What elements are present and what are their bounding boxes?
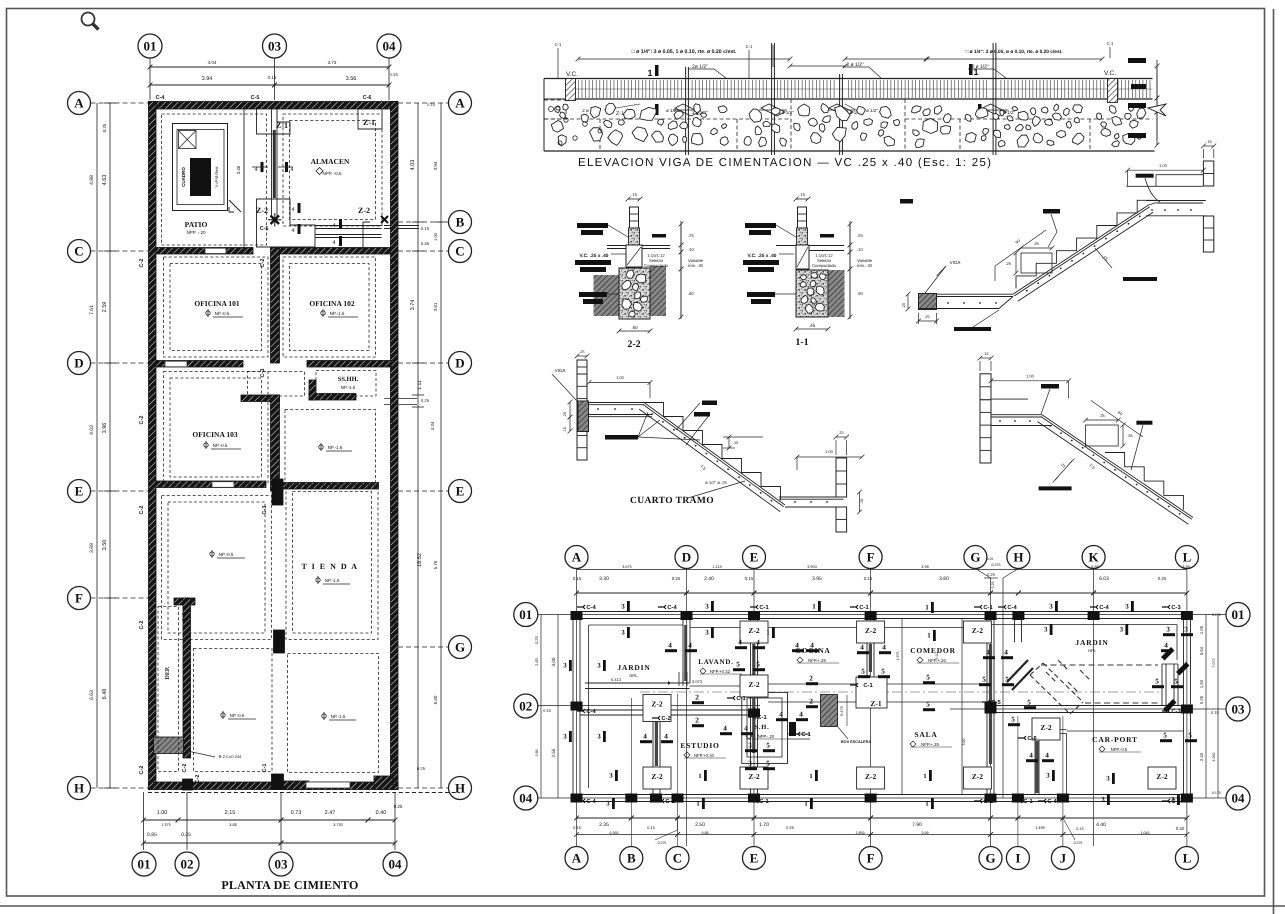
plan left dim col [540, 615, 542, 799]
svg-text:Z-2: Z-2 [748, 626, 760, 635]
svg-text:3.88: 3.88 [229, 823, 236, 827]
svg-text:4: 4 [291, 228, 294, 234]
svg-text:5: 5 [1188, 732, 1192, 740]
grid bubble E plan bottom [743, 847, 766, 870]
svg-text:01: 01 [138, 857, 151, 872]
detail 2-2 floor lines [607, 245, 626, 247]
dowel bar 1 [685, 67, 687, 155]
svg-text:Z-2: Z-2 [651, 700, 663, 709]
grid bubble C plan bottom [666, 847, 689, 870]
stair1 black bar right [1123, 277, 1157, 281]
stair1 diag dim 90 [995, 230, 1046, 266]
stair3 diag dim 60 [1091, 400, 1143, 437]
svg-text:5: 5 [1155, 678, 1159, 686]
svg-text:1-1: 1-1 [795, 337, 808, 348]
stair1 landing top [1126, 185, 1203, 187]
svg-text:0.25: 0.25 [991, 582, 995, 589]
svg-text:G: G [970, 550, 980, 565]
svg-text:2.40: 2.40 [704, 576, 714, 582]
axis line E right [398, 490, 449, 492]
svg-text:1: 1 [766, 629, 770, 637]
stair1 right ladder top [1203, 161, 1213, 186]
zapata box Z-1 F axis [856, 677, 887, 708]
svg-text:3.50: 3.50 [102, 540, 108, 551]
plan inner face mid [690, 627, 987, 629]
svg-text:1.00: 1.00 [825, 449, 834, 454]
svg-text:C-6: C-6 [1027, 735, 1037, 742]
detail 2-2 bottom dim [619, 330, 650, 332]
svg-text:1.065: 1.065 [1212, 753, 1216, 762]
svg-text:C-2: C-2 [139, 259, 145, 268]
room outline oficina103 [164, 372, 269, 484]
dim col left outer [96, 103, 98, 788]
svg-text:VIGA: VIGA [950, 260, 961, 265]
svg-text:03: 03 [268, 39, 282, 54]
svg-text:C-1: C-1 [759, 604, 769, 611]
axis line 01 [149, 58, 151, 100]
plan bottom axis C fork [655, 830, 678, 840]
svg-text:C-2: C-2 [392, 416, 398, 425]
svg-text:3: 3 [563, 662, 567, 670]
svg-text:Compactado: Compactado [812, 263, 836, 268]
grid bubble F plan top [859, 546, 882, 569]
detail 1-1 wall cells [798, 207, 807, 228]
svg-text:5: 5 [766, 760, 770, 768]
grid bubble 03 plan right [1226, 697, 1250, 721]
dim line top inner [150, 84, 275, 86]
svg-text:C-3: C-3 [260, 369, 266, 378]
svg-text:0.15: 0.15 [1211, 710, 1220, 715]
svg-text:NP.-1.5: NP.-1.5 [325, 578, 340, 583]
dowel bar 3 [839, 74, 841, 155]
svg-text:4.03: 4.03 [89, 425, 95, 435]
svg-text:3.94: 3.94 [202, 76, 213, 82]
axis line G right [398, 646, 449, 648]
stair1 black bar top [1136, 174, 1154, 178]
grid bubble E left [68, 480, 91, 503]
stair3 top slab [991, 414, 1042, 416]
column 04-H [374, 776, 393, 790]
patio inner corner lines [363, 222, 370, 252]
zapata Z-2 outline center [257, 199, 316, 247]
svg-text:0.45: 0.45 [421, 241, 430, 246]
svg-text:C-5: C-5 [260, 226, 269, 232]
stair1 bottom leader [973, 310, 999, 327]
svg-text:3: 3 [748, 742, 752, 750]
svg-text:3: 3 [1184, 626, 1188, 634]
svg-text:H: H [455, 781, 465, 796]
svg-text:1.11: 1.11 [417, 380, 423, 390]
svg-text:6.88: 6.88 [1091, 565, 1098, 569]
svg-text:3: 3 [606, 800, 610, 808]
svg-text:7.073: 7.073 [1212, 659, 1216, 668]
label 4 ticks top [261, 162, 264, 172]
svg-text:0.85: 0.85 [147, 832, 157, 838]
svg-text:NPP. -0.6: NPP. -0.6 [323, 171, 342, 176]
svg-text:ESTUDIO: ESTUDIO [680, 741, 719, 750]
svg-text:D: D [74, 356, 83, 371]
svg-text:3.30: 3.30 [599, 576, 609, 582]
svg-text:1.00: 1.00 [616, 375, 625, 380]
beam top line [544, 78, 1153, 80]
svg-text:C: C [74, 244, 83, 259]
svg-text:B: B [627, 851, 636, 866]
svg-text:G: G [985, 851, 995, 866]
svg-text:PATIO: PATIO [185, 220, 208, 229]
svg-text:PLANTA DE CIMIENTO: PLANTA DE CIMIENTO [221, 878, 358, 892]
detail 1-1 bottom dim [796, 328, 828, 330]
svg-text:0.15: 0.15 [573, 576, 582, 581]
svg-text:C-1: C-1 [262, 764, 268, 773]
grid bubble B plan bottom [620, 847, 643, 870]
svg-text:NFP.+.25: NFP.+.25 [808, 658, 826, 663]
beam mid line [576, 88, 1153, 90]
svg-text:L: L [1183, 550, 1192, 565]
axis line F left [91, 597, 149, 599]
wall sshh step [309, 394, 356, 401]
elev dim line 1 [578, 58, 790, 60]
svg-text:LAVAND.: LAVAND. [698, 658, 734, 666]
svg-text:03: 03 [275, 857, 289, 872]
axis line J vertical [1062, 716, 1064, 846]
axis line 03 plan [950, 708, 1226, 710]
stair3 black bar right [1136, 421, 1152, 425]
room outline oficina101 [164, 257, 269, 357]
svg-text:1.113: 1.113 [712, 565, 721, 569]
svg-text:ALMACEN: ALMACEN [311, 157, 350, 166]
svg-text:C-6: C-6 [363, 95, 372, 101]
svg-text:C-1: C-1 [759, 798, 769, 805]
stair2 left ladder upper [577, 360, 587, 374]
svg-text:5: 5 [736, 661, 740, 669]
svg-text:C-2: C-2 [392, 506, 398, 515]
svg-text:NP.-0.5: NP.-0.5 [215, 311, 230, 316]
plan bottom dim line [577, 817, 632, 819]
svg-text:Z-2: Z-2 [972, 626, 984, 635]
grid bubble F plan bottom [859, 847, 882, 870]
grid bubble A plan bottom [565, 847, 588, 870]
stair3 tail lines [1185, 505, 1196, 520]
svg-text:0.25: 0.25 [987, 557, 994, 561]
zapata box Z-2 [643, 767, 671, 789]
svg-text:4.03: 4.03 [410, 160, 416, 171]
svg-text:3 ø 1/2": 3 ø 1/2" [778, 110, 794, 115]
svg-text:5: 5 [982, 676, 986, 684]
svg-text:4: 4 [291, 207, 294, 213]
room outline patio [162, 114, 267, 245]
detail 1-1 dim .15 top [796, 198, 808, 200]
svg-text:0.15: 0.15 [573, 825, 582, 830]
detail 1-1 label bar 1 [745, 223, 776, 228]
stair1 diagonal slab [1013, 205, 1149, 294]
svg-text:4: 4 [643, 733, 647, 741]
svg-text:D: D [455, 356, 464, 371]
plan wall E [750, 619, 752, 795]
svg-text:1: 1 [927, 632, 931, 640]
grid bubble A right [449, 92, 472, 115]
svg-text:4: 4 [738, 639, 742, 647]
stair1 black bar left [900, 199, 913, 204]
column X mark Z-2 right [381, 216, 388, 223]
svg-text:A: A [572, 550, 582, 565]
svg-text:0.375: 0.375 [992, 563, 1001, 567]
svg-text:3: 3 [1049, 603, 1053, 611]
plan wall bottom [571, 794, 1191, 796]
svg-text:1.50: 1.50 [1199, 679, 1204, 688]
svg-text:C-1: C-1 [746, 44, 753, 49]
svg-text:0.25: 0.25 [1158, 576, 1167, 581]
svg-text:V.C. .25 x .40: V.C. .25 x .40 [748, 253, 777, 259]
svg-text:.25: .25 [579, 350, 584, 354]
svg-text:3: 3 [705, 603, 709, 611]
svg-text:0.25: 0.25 [421, 398, 430, 403]
wall dep right [183, 598, 191, 758]
detail 1-1 ground hatch right [829, 270, 845, 317]
svg-text:NFP.-.20: NFP.-.20 [758, 734, 775, 739]
detail 2-2 dim .15 top [628, 198, 640, 200]
svg-text:C-3: C-3 [1171, 708, 1181, 715]
svg-text:2.59: 2.59 [102, 302, 108, 313]
stair2 left ladder [577, 374, 587, 460]
detail 1-1 floor lines [809, 245, 844, 247]
svg-text:5: 5 [926, 701, 930, 709]
svg-text:Z-1: Z-1 [363, 118, 375, 127]
detail 2-2 wall concrete [629, 228, 640, 245]
detail 2-2 ground hatch left [594, 275, 620, 316]
grid bubble E plan top [743, 546, 766, 569]
svg-text:3.96: 3.96 [102, 423, 108, 434]
svg-text:H: H [1013, 550, 1023, 565]
stair3 left ladder [980, 374, 991, 400]
plan wall 03 right [994, 705, 1184, 707]
detail 2-2 cimiento concrete [619, 268, 650, 319]
svg-text:Z-1: Z-1 [870, 699, 882, 708]
axis line H right [398, 787, 449, 789]
svg-text:C-3: C-3 [1171, 604, 1181, 611]
svg-text:NP.-0.6: NP.-0.6 [230, 713, 245, 718]
svg-text:C-2: C-2 [139, 506, 145, 515]
svg-text:C-4: C-4 [586, 798, 596, 805]
plan wall sh box [742, 692, 788, 763]
svg-text:4: 4 [1045, 752, 1049, 760]
svg-text:C-4: C-4 [586, 604, 596, 611]
svg-text:3: 3 [621, 629, 625, 637]
svg-text:T I E N D A: T I E N D A [301, 562, 358, 571]
axis line A vertical [576, 569, 578, 847]
svg-text:3: 3 [1046, 772, 1050, 780]
axis line E vertical [753, 569, 755, 847]
dashed excavation line [544, 118, 790, 120]
wall axis D right [307, 361, 391, 368]
svg-text:0.25: 0.25 [181, 832, 191, 838]
axis line C right [398, 250, 449, 252]
svg-text:0.15: 0.15 [268, 75, 277, 80]
svg-text:7.61: 7.61 [89, 305, 95, 315]
grid bubble D plan top [675, 546, 698, 569]
wall right [391, 102, 399, 790]
plan bottom dim line 2 [577, 834, 678, 836]
room outline almacen upper [283, 114, 382, 226]
stair3 step start lines [1042, 415, 1105, 453]
svg-text:5: 5 [756, 661, 760, 669]
grid bubble 01 plan right [1226, 603, 1250, 627]
svg-text:V.C.: V.C. [566, 71, 578, 78]
svg-text:02: 02 [519, 699, 532, 714]
svg-text:.26: .26 [1127, 433, 1133, 438]
svg-text:COCINA: COCINA [795, 646, 830, 655]
plan top dim tiny row [577, 569, 1187, 571]
grid bubble B right [449, 211, 472, 234]
plan inner face top right [985, 624, 1177, 626]
zapata box Z-2 [1032, 718, 1060, 740]
svg-text:.15: .15 [563, 427, 567, 432]
elev dim line mid [790, 65, 845, 67]
svg-text:04: 04 [389, 857, 403, 872]
grid bubble E right [449, 480, 472, 503]
axis line H left [91, 787, 149, 789]
svg-text:3: 3 [597, 733, 601, 741]
plan wall right [1183, 612, 1185, 802]
plan columns [571, 611, 1193, 803]
plan wall 02 left [580, 709, 756, 711]
svg-text:V.C.: V.C. [1104, 70, 1116, 77]
zapata box Z-2 [740, 675, 768, 697]
stair2 dim .25 top [577, 355, 587, 357]
svg-text:OFICINA 101: OFICINA 101 [194, 299, 239, 308]
plan wall F partial [866, 619, 868, 707]
svg-text:.15: .15 [733, 441, 738, 445]
svg-text:1.00: 1.00 [1026, 374, 1035, 379]
door band D wall [165, 361, 187, 367]
stair2 dim 1.00 right [797, 456, 862, 458]
stair3 diagonal slab [1042, 415, 1193, 518]
svg-text:A: A [572, 851, 582, 866]
axis line 04 [388, 58, 390, 100]
stair3 black bar bottom [1039, 486, 1072, 490]
svg-text:C-1: C-1 [665, 798, 675, 805]
legend box patio [173, 124, 228, 211]
column V.C. left [566, 79, 576, 101]
svg-text:1.05: 1.05 [1199, 625, 1204, 634]
svg-text:3.88: 3.88 [535, 750, 539, 757]
svg-text:1: 1 [647, 68, 652, 78]
svg-text:SALA: SALA [914, 730, 937, 739]
svg-text:3: 3 [597, 662, 601, 670]
svg-text:1: 1 [696, 800, 700, 808]
svg-text:0.15: 0.15 [427, 102, 436, 107]
column 03-H [272, 774, 284, 790]
svg-text:2.35: 2.35 [599, 822, 609, 828]
svg-text:.15: .15 [1206, 139, 1212, 144]
svg-text:4: 4 [1029, 752, 1033, 760]
svg-text:C-4: C-4 [586, 708, 596, 715]
wall axis E left [156, 481, 266, 488]
grid bubble D right [449, 352, 472, 375]
svg-text:4: 4 [254, 167, 257, 173]
dim col right [417, 103, 419, 788]
svg-text:0.15: 0.15 [745, 576, 754, 581]
svg-text:C-1: C-1 [1107, 41, 1114, 46]
stair2 black bars [605, 435, 638, 440]
svg-text:.25: .25 [838, 431, 843, 435]
grid bubble 03 bottom [269, 852, 293, 876]
stair2 dim .15 mid [728, 437, 730, 448]
svg-text:18.52: 18.52 [417, 553, 423, 567]
svg-text:NFP.+.26: NFP.+.26 [928, 658, 946, 663]
stair3 top lines [991, 398, 1028, 400]
detail 1-1 vc box [796, 245, 809, 269]
svg-text:3.98: 3.98 [1182, 565, 1189, 569]
svg-text:2.15: 2.15 [225, 810, 236, 816]
stair2 dim .25 right [836, 436, 847, 438]
svg-text:3.735: 3.735 [333, 823, 343, 827]
svg-text:9.88: 9.88 [702, 831, 709, 835]
room outline oficina102 [283, 257, 376, 357]
svg-text:CAR-PORT: CAR-PORT [1092, 735, 1138, 744]
svg-text:C-4: C-4 [667, 604, 677, 611]
axis line dowel2 [772, 45, 774, 67]
zapata box Z-2 [963, 621, 991, 643]
svg-text:C-2: C-2 [392, 621, 398, 630]
svg-text:C-2: C-2 [139, 621, 145, 630]
svg-text:01: 01 [144, 39, 157, 54]
svg-text:4.88: 4.88 [89, 175, 95, 185]
stair3 black bar top [1041, 384, 1059, 389]
stair2 dim .15 right2 [859, 492, 861, 512]
svg-text:3.98: 3.98 [921, 565, 928, 569]
axis line H fork [1003, 569, 1018, 579]
svg-text:E: E [750, 550, 759, 565]
svg-text:0.15: 0.15 [543, 708, 552, 713]
svg-text:NP.-1.6: NP.-1.6 [328, 445, 343, 450]
axis line D left [91, 362, 149, 364]
svg-text:NP.-1.5: NP.-1.5 [330, 311, 345, 316]
grid bubble J plan bottom [1051, 847, 1074, 870]
axis line C left [91, 250, 149, 252]
svg-text:1.859: 1.859 [856, 831, 865, 835]
svg-text:6.48: 6.48 [102, 689, 108, 700]
svg-text:C-1: C-1 [863, 682, 873, 689]
svg-text:C-3: C-3 [1171, 798, 1181, 805]
wall axis 03 upper [271, 248, 280, 364]
grid bubble H plan top [1007, 546, 1030, 569]
svg-text:0.64: 0.64 [1199, 646, 1204, 655]
svg-text:0.25: 0.25 [672, 576, 681, 581]
svg-text:C-1: C-1 [983, 604, 993, 611]
svg-text:NP.-1.5: NP.-1.5 [331, 714, 346, 719]
axis line D vertical [686, 569, 688, 847]
stair2 steps [644, 403, 781, 501]
zapata box Z-2 [740, 767, 768, 789]
svg-text:3.74: 3.74 [410, 300, 416, 311]
svg-text:VIGA: VIGA [555, 368, 566, 373]
svg-text:.10: .10 [857, 247, 863, 252]
svg-text:.15: .15 [631, 192, 637, 197]
svg-text:3: 3 [1106, 775, 1110, 783]
detail 2-2 stones [620, 268, 650, 317]
svg-text:3.99: 3.99 [922, 831, 929, 835]
stair3 dim 1.00 [991, 380, 1069, 382]
door band bottom wall [306, 782, 350, 788]
zapata box Z-2 [740, 621, 768, 643]
svg-text:.15: .15 [799, 192, 805, 197]
room outline np15 lower [288, 654, 379, 773]
svg-text:5.76: 5.76 [433, 560, 438, 569]
svg-text:1.975: 1.975 [896, 652, 900, 661]
svg-text:04: 04 [519, 791, 533, 806]
axis line B right [398, 221, 449, 223]
svg-text:5: 5 [1163, 732, 1167, 740]
